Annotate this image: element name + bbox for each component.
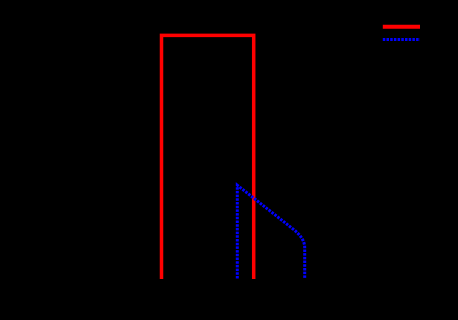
legend red solid line sample [383,25,420,29]
legend blue dotted line sample [383,38,420,41]
red solid curve (ideal boxcar response) [162,35,254,279]
blue dotted curve (actual response) [237,185,304,278]
